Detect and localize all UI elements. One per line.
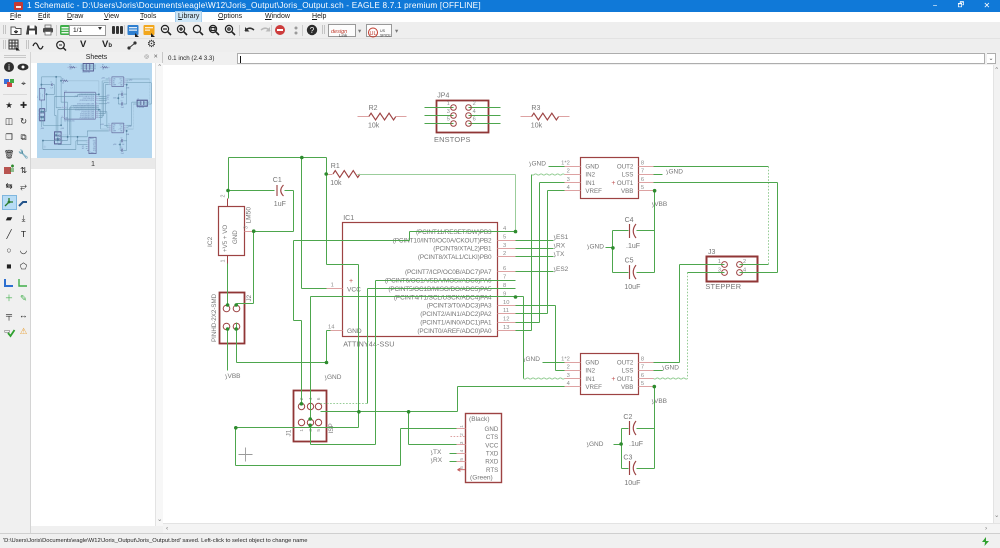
svg-text:i: i bbox=[8, 63, 10, 72]
svg-text:Link: Link bbox=[339, 33, 348, 38]
svg-text:?: ? bbox=[310, 26, 315, 35]
svg-text:US: US bbox=[380, 29, 386, 33]
svg-text:SPICE: SPICE bbox=[380, 34, 391, 38]
svg-text:UL: UL bbox=[369, 31, 376, 37]
